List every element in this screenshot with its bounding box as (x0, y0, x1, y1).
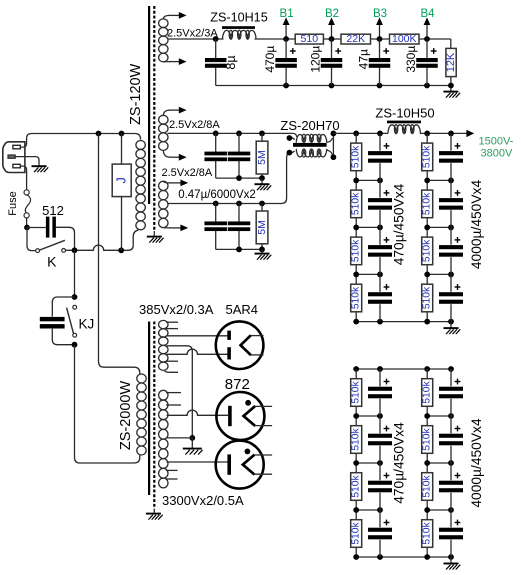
svg-text:B3: B3 (373, 8, 387, 20)
svg-text:330µ: 330µ (404, 46, 418, 73)
svg-text:B2: B2 (325, 8, 339, 20)
svg-text:4000µ/450Vx4: 4000µ/450Vx4 (469, 418, 484, 508)
svg-text:ZS-10H15: ZS-10H15 (210, 11, 267, 25)
svg-text:2.5Vx2/3A: 2.5Vx2/3A (167, 28, 218, 40)
svg-text:510k: 510k (422, 145, 433, 168)
svg-text:ZS-120W: ZS-120W (128, 63, 144, 125)
svg-text:385Vx2/0.3A: 385Vx2/0.3A (139, 302, 214, 317)
svg-text:0.47µ/6000Vx2: 0.47µ/6000Vx2 (178, 189, 256, 201)
svg-text:510k: 510k (351, 145, 362, 168)
svg-text:510k: 510k (422, 380, 433, 403)
svg-text:510k: 510k (351, 380, 362, 403)
svg-text:510k: 510k (422, 239, 433, 262)
svg-text:2.5Vx2/8A: 2.5Vx2/8A (169, 119, 220, 131)
svg-text:22K: 22K (346, 33, 365, 45)
svg-text:3800V: 3800V (481, 148, 513, 160)
svg-text:2.5Vx2/8A: 2.5Vx2/8A (162, 167, 213, 179)
svg-text:Fuse: Fuse (7, 191, 19, 215)
svg-text:8µ: 8µ (224, 55, 238, 69)
svg-text:510k: 510k (351, 192, 362, 215)
svg-text:510k: 510k (351, 474, 362, 497)
svg-text:470µ/450Vx4: 470µ/450Vx4 (392, 183, 407, 265)
svg-text:510: 510 (301, 33, 319, 45)
svg-text:ZS-20H70: ZS-20H70 (280, 118, 339, 133)
svg-text:470µ/450Vx4: 470µ/450Vx4 (392, 422, 407, 504)
svg-text:872: 872 (225, 376, 250, 393)
svg-text:510k: 510k (351, 286, 362, 309)
svg-text:ZS-10H50: ZS-10H50 (375, 106, 434, 121)
svg-text:512: 512 (42, 203, 64, 218)
svg-text:510k: 510k (422, 474, 433, 497)
svg-text:510k: 510k (422, 286, 433, 309)
svg-text:470µ: 470µ (263, 46, 277, 73)
svg-text:5M: 5M (256, 220, 268, 235)
svg-text:1500V-: 1500V- (479, 135, 514, 147)
svg-text:3300Vx2/0.5A: 3300Vx2/0.5A (162, 493, 244, 508)
svg-text:510k: 510k (422, 521, 433, 544)
svg-text:120µ: 120µ (308, 46, 322, 73)
svg-text:5M: 5M (256, 150, 268, 165)
svg-text:B1: B1 (280, 8, 294, 20)
svg-text:510k: 510k (422, 427, 433, 450)
svg-text:J: J (115, 177, 129, 183)
svg-text:KJ: KJ (79, 317, 95, 332)
svg-text:510k: 510k (351, 427, 362, 450)
svg-text:K: K (47, 253, 57, 269)
svg-text:510k: 510k (351, 521, 362, 544)
svg-text:47µ: 47µ (356, 49, 370, 69)
svg-text:ZS-2000W: ZS-2000W (118, 381, 134, 451)
svg-text:B4: B4 (420, 8, 435, 20)
svg-text:510k: 510k (351, 239, 362, 262)
svg-text:510k: 510k (422, 192, 433, 215)
svg-text:100K: 100K (392, 33, 417, 45)
svg-text:12K: 12K (445, 52, 457, 72)
svg-text:5AR4: 5AR4 (226, 302, 259, 317)
svg-text:4000µ/450Vx4: 4000µ/450Vx4 (469, 180, 484, 270)
